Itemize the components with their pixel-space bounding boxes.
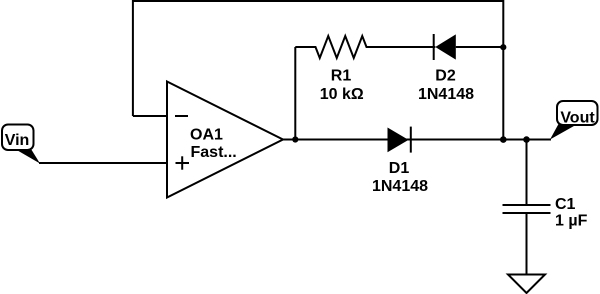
svg-text:C1: C1	[555, 196, 576, 213]
svg-text:Fast...: Fast...	[191, 144, 237, 161]
svg-text:1N4148: 1N4148	[372, 178, 428, 195]
svg-text:Vin: Vin	[5, 132, 30, 149]
svg-text:D1: D1	[389, 160, 410, 177]
svg-text:1 µF: 1 µF	[555, 212, 588, 229]
svg-text:Vout: Vout	[560, 110, 595, 127]
svg-text:D2: D2	[435, 68, 456, 85]
svg-text:10 kΩ: 10 kΩ	[320, 86, 364, 103]
svg-text:R1: R1	[331, 68, 352, 85]
svg-text:OA1: OA1	[190, 126, 223, 143]
svg-text:1N4148: 1N4148	[418, 86, 474, 103]
